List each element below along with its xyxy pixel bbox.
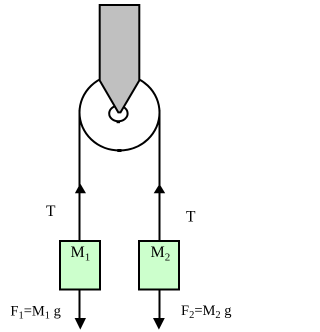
wire: right weight line below M2 [159, 290, 161, 319]
wire: left weight line below M1 [79, 290, 81, 319]
svg-text:F1=M1 g: F1=M1 g [10, 304, 61, 322]
pulley bottom joint nub [117, 149, 121, 152]
weight arrowhead left (down) [75, 318, 86, 330]
weight arrowhead right (down) [153, 318, 165, 330]
axle bottom joint nub [117, 121, 120, 124]
svg-text:T: T [46, 203, 56, 220]
wire: left rope from pulley to mass M1 [79, 110, 81, 240]
support bracket [100, 5, 140, 112]
tension arrowhead right (up) [154, 184, 166, 193]
svg-text:F2=M2 g: F2=M2 g [181, 303, 232, 321]
mass M1 box [60, 241, 100, 290]
pulley axle [109, 106, 127, 122]
wire: right rope from pulley to mass M2 [159, 110, 161, 240]
mass M2 box [139, 241, 179, 290]
svg-text:T: T [186, 209, 196, 226]
pulley wheel [80, 75, 160, 151]
tension arrowhead left (up) [75, 183, 86, 193]
